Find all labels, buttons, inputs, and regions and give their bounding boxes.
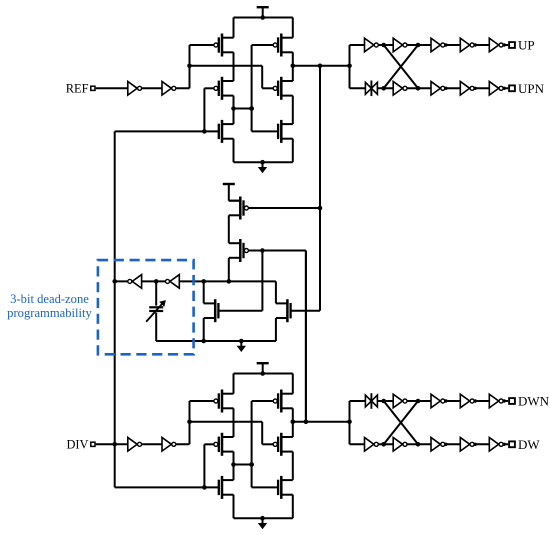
svg-text:REF: REF — [66, 82, 89, 96]
svg-text:DW: DW — [518, 437, 540, 452]
svg-text:programmability: programmability — [7, 306, 92, 320]
svg-text:3-bit dead-zone: 3-bit dead-zone — [10, 292, 89, 306]
svg-text:DIV: DIV — [66, 438, 88, 452]
svg-text:UP: UP — [518, 38, 535, 53]
svg-text:DWN: DWN — [518, 394, 550, 409]
svg-text:UPN: UPN — [518, 81, 545, 96]
